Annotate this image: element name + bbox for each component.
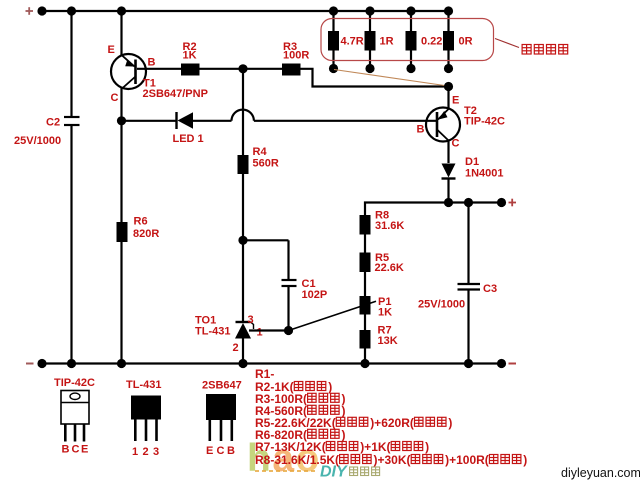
package TIP-42C pins B C E bbox=[62, 444, 89, 456]
wire R2 to node A bbox=[200, 68, 244, 70]
svg-text:C: C bbox=[111, 92, 119, 104]
package TL-431 TO-92 body bbox=[131, 396, 161, 442]
wire T1 base to R2 bbox=[137, 68, 181, 70]
label value 0.22 bbox=[421, 36, 442, 48]
label R2 value 1K bbox=[183, 49, 197, 61]
label R7 bbox=[378, 325, 392, 337]
wire output positive rail bbox=[365, 203, 502, 364]
resistor R5 22.6K bbox=[360, 253, 371, 273]
node input minus terminal bbox=[37, 359, 46, 368]
node output plus terminal bbox=[497, 198, 506, 207]
svg-text:D1: D1 bbox=[465, 156, 479, 168]
svg-text:R1-: R1- bbox=[255, 367, 274, 381]
diode D1 1N4001 bbox=[442, 164, 456, 203]
svg-text:R6: R6 bbox=[134, 216, 148, 228]
svg-text:B: B bbox=[62, 444, 70, 456]
svg-text:560R: 560R bbox=[253, 158, 279, 170]
svg-text:2: 2 bbox=[233, 342, 239, 354]
node T2 emitter junction bbox=[444, 82, 453, 91]
wire T1 collector down through R6 to bottom rail bbox=[120, 121, 122, 364]
capacitor C1 102P bbox=[282, 240, 297, 330]
svg-text:2: 2 bbox=[143, 446, 149, 458]
wire LED1 to hop bbox=[193, 120, 232, 122]
label T2 pin E bbox=[452, 95, 459, 107]
wire node B to C1 bbox=[243, 239, 289, 241]
svg-text:LED 1: LED 1 bbox=[173, 133, 204, 145]
node top rail 0.22 bbox=[406, 6, 415, 15]
svg-text:): ) bbox=[448, 416, 452, 430]
label R4 bbox=[253, 146, 268, 158]
package 2SB647 pins E C B bbox=[206, 445, 235, 457]
package TL-431 label bbox=[126, 379, 161, 391]
wire node A to R3 bbox=[243, 68, 282, 70]
wire hop to T2 base bbox=[254, 120, 437, 122]
watermark DIY text bbox=[320, 464, 380, 480]
node C3 top junction bbox=[464, 198, 473, 207]
resistor R6 820R bbox=[117, 222, 128, 242]
diode LED 1 bbox=[177, 112, 194, 129]
callout rounded box current adjust group bbox=[321, 19, 494, 61]
label + input bbox=[26, 7, 34, 15]
svg-text:1K: 1K bbox=[378, 307, 392, 319]
label R5 bbox=[375, 252, 389, 264]
wire R3 to emitter node of T2 (step) bbox=[301, 69, 449, 87]
label R7 value 13K bbox=[378, 335, 398, 347]
svg-text:25V/1000: 25V/1000 bbox=[418, 299, 465, 311]
svg-text:1: 1 bbox=[257, 326, 263, 338]
svg-text:25V/1000: 25V/1000 bbox=[14, 135, 61, 147]
label T1 pin E bbox=[108, 44, 115, 56]
svg-text:B: B bbox=[148, 57, 156, 69]
node R6 bottom bbox=[117, 359, 126, 368]
label C1 bbox=[302, 278, 316, 290]
callout pointer line bbox=[495, 39, 519, 48]
node A junction R2/R3/R4 bbox=[238, 64, 247, 73]
svg-text:R8-31.6K/1.5K(: R8-31.6K/1.5K( bbox=[255, 453, 339, 467]
package TIP-42C label bbox=[54, 377, 95, 389]
label C3 bbox=[483, 283, 497, 295]
svg-text:): ) bbox=[523, 453, 527, 467]
node bottom 4.7R bbox=[329, 64, 338, 73]
svg-text:)+30K(: )+30K( bbox=[374, 453, 411, 467]
label TL431 pin 2 bbox=[233, 342, 239, 354]
wire node B down to TL431 cathode bbox=[242, 240, 244, 322]
parts list line 7 bbox=[255, 440, 429, 454]
node T1 collector / LED junction bbox=[117, 116, 126, 125]
svg-text:R4: R4 bbox=[253, 146, 268, 158]
svg-text:TIP-42C: TIP-42C bbox=[54, 377, 95, 389]
resistor bank 1R bbox=[365, 11, 376, 69]
wire wiper diagonal to P1 bbox=[289, 301, 377, 330]
wire TL431 ref to node C bbox=[249, 329, 289, 331]
svg-text:1N4001: 1N4001 bbox=[465, 168, 504, 180]
label R5 value 22.6K bbox=[375, 262, 404, 274]
svg-text:2SB647/PNP: 2SB647/PNP bbox=[143, 88, 208, 100]
node B junction R4/C1/TL431 bbox=[238, 236, 247, 245]
node bottom 1R bbox=[365, 64, 374, 73]
label T2 pin B bbox=[417, 123, 425, 135]
svg-text:820R: 820R bbox=[133, 228, 159, 240]
node C2 junction on top rail bbox=[67, 6, 76, 15]
watermark dashed underline bbox=[255, 470, 318, 472]
parts list line 2 bbox=[255, 380, 332, 394]
svg-text:0R: 0R bbox=[459, 36, 473, 48]
label C2 bbox=[46, 117, 60, 129]
svg-text:TL-431: TL-431 bbox=[126, 379, 161, 391]
wire node A down to R4 bbox=[242, 69, 244, 155]
label TL431 pin 1 bbox=[257, 326, 263, 338]
watermark hao123 logo bbox=[247, 437, 321, 480]
svg-text:C: C bbox=[72, 444, 80, 456]
node divider bottom bbox=[360, 359, 369, 368]
wire hop over vertical bbox=[232, 110, 254, 121]
label T1 pin C bbox=[111, 92, 119, 104]
parts list line 1 bbox=[255, 367, 274, 381]
svg-text:B: B bbox=[417, 123, 425, 135]
resistor bank 4.7R bbox=[328, 11, 339, 69]
svg-text:102P: 102P bbox=[302, 289, 328, 301]
label R6 bbox=[134, 216, 148, 228]
label current adjust (CJK) bbox=[522, 45, 568, 55]
package 2SB647 TO-92L body bbox=[206, 394, 236, 441]
wire jumper from 4.7R bottom to T2 emitter node bbox=[334, 70, 448, 87]
label C1 value 102P bbox=[302, 289, 328, 301]
resistor bank 0.22 bbox=[406, 11, 417, 69]
node output minus terminal bbox=[497, 359, 506, 368]
wire junction to LED1 bbox=[122, 120, 177, 122]
node input plus terminal bbox=[37, 6, 46, 15]
label value 0R bbox=[459, 36, 473, 48]
resistor bank 0R bbox=[443, 11, 454, 69]
label R3 bbox=[283, 41, 297, 53]
node C2 bottom bbox=[67, 359, 76, 368]
label R8 value 31.6K bbox=[375, 220, 404, 232]
svg-text:E: E bbox=[81, 444, 88, 456]
svg-text:E: E bbox=[206, 445, 213, 457]
label R3 value 100R bbox=[283, 49, 309, 61]
node D1 cathode on output rail bbox=[444, 198, 453, 207]
node TL431 anode bottom bbox=[238, 359, 247, 368]
parts list line 8 bbox=[255, 453, 527, 467]
svg-text:)+620R(: )+620R( bbox=[370, 416, 414, 430]
label TL-431 bbox=[195, 326, 230, 338]
resistor R2 1K bbox=[181, 64, 200, 76]
svg-text:): ) bbox=[342, 404, 346, 418]
label C3 value 25V/1000 bbox=[418, 299, 465, 311]
package 2SB647 label bbox=[202, 380, 242, 392]
svg-text:): ) bbox=[328, 380, 332, 394]
label D1 bbox=[465, 156, 479, 168]
wire top positive supply rail bbox=[42, 10, 449, 12]
svg-text:)+1K(: )+1K( bbox=[360, 440, 390, 454]
site credit diyleyuan.com bbox=[561, 466, 640, 480]
svg-text:B: B bbox=[227, 445, 235, 457]
label D1 type 1N4001 bbox=[465, 168, 504, 180]
wire bottom negative rail bbox=[42, 362, 502, 364]
svg-text:): ) bbox=[425, 440, 429, 454]
label R8 bbox=[375, 209, 389, 221]
transistor Q T2 TIP-42C PNP bbox=[426, 87, 460, 164]
svg-text:C2: C2 bbox=[46, 117, 60, 129]
svg-text:4.7R: 4.7R bbox=[341, 36, 364, 48]
svg-text:22.6K: 22.6K bbox=[375, 262, 404, 274]
node top rail 1R bbox=[365, 6, 374, 15]
label P1 value 1K bbox=[378, 307, 392, 319]
package TL-431 pins 1 2 3 bbox=[132, 446, 159, 458]
label T1 type 2SB647/PNP bbox=[143, 88, 208, 100]
svg-text:diyleyuan.com: diyleyuan.com bbox=[561, 466, 640, 480]
label R6 value 820R bbox=[133, 228, 159, 240]
svg-text:1R: 1R bbox=[380, 36, 394, 48]
svg-text:C: C bbox=[452, 138, 460, 150]
node T1 emitter junction on top rail bbox=[117, 6, 126, 15]
svg-text:C3: C3 bbox=[483, 283, 497, 295]
label T2 type TIP-42C bbox=[464, 116, 505, 128]
svg-text:E: E bbox=[108, 44, 115, 56]
label - output bbox=[509, 363, 517, 365]
svg-text:2SB647: 2SB647 bbox=[202, 380, 242, 392]
resistor R7 13K bbox=[360, 330, 371, 349]
svg-text:TL-431: TL-431 bbox=[195, 326, 230, 338]
node bottom 0R bbox=[444, 64, 453, 73]
svg-text:E: E bbox=[452, 95, 459, 107]
wire R4 to node B bbox=[242, 174, 244, 240]
label value 1R bbox=[380, 36, 394, 48]
svg-text:3: 3 bbox=[248, 314, 254, 326]
label R4 value 560R bbox=[253, 158, 279, 170]
package TIP-42C TO-220 outline bbox=[61, 391, 89, 442]
label + output bbox=[509, 199, 517, 207]
svg-text:): ) bbox=[342, 428, 346, 442]
svg-text:1: 1 bbox=[132, 446, 138, 458]
node top rail 0R bbox=[444, 6, 453, 15]
svg-text:TIP-42C: TIP-42C bbox=[464, 116, 505, 128]
label T1 pin B bbox=[148, 57, 156, 69]
svg-text:C: C bbox=[217, 445, 225, 457]
resistor R3 100R bbox=[282, 64, 301, 76]
parts list line 6 bbox=[255, 428, 346, 442]
label C2 value 25V/1000 bbox=[14, 135, 61, 147]
svg-text:3: 3 bbox=[153, 446, 159, 458]
label P1 bbox=[378, 296, 391, 308]
label LED 1 bbox=[173, 133, 204, 145]
node bottom 0.22 bbox=[406, 64, 415, 73]
potentiometer P1 1K bbox=[360, 296, 371, 315]
parts list line 5 bbox=[255, 416, 452, 430]
label T1 bbox=[143, 78, 156, 90]
label T2 bbox=[464, 105, 477, 117]
label TO1 bbox=[195, 315, 216, 327]
node top rail 4.7R bbox=[329, 6, 338, 15]
svg-text:13K: 13K bbox=[378, 335, 398, 347]
svg-text:1K: 1K bbox=[183, 49, 197, 61]
transistor Q T1 2SB647 PNP bbox=[111, 11, 146, 121]
capacitor C2 25V/1000 bbox=[64, 11, 80, 364]
resistor R4 560R bbox=[238, 155, 249, 174]
capacitor C3 25V/1000 bbox=[458, 203, 481, 364]
label - input bbox=[26, 363, 34, 365]
svg-text:)+100R(: )+100R( bbox=[445, 453, 489, 467]
node C3 bottom bbox=[464, 359, 473, 368]
label TL431 pin 3 bbox=[248, 314, 254, 326]
label R2 bbox=[183, 41, 197, 53]
label value 4.7R bbox=[341, 36, 364, 48]
node C junction ref/C1/wiper bbox=[284, 326, 293, 335]
svg-text:100R: 100R bbox=[283, 49, 309, 61]
svg-text:31.6K: 31.6K bbox=[375, 220, 404, 232]
shunt regulator U TO1 TL-431 bbox=[235, 322, 254, 364]
parts list line 4 bbox=[255, 404, 346, 418]
label T2 pin C bbox=[452, 138, 460, 150]
resistor R8 31.6K bbox=[360, 215, 371, 235]
svg-text:0.22: 0.22 bbox=[421, 36, 442, 48]
parts list line 3 bbox=[255, 392, 346, 406]
svg-text:R7-13K/12K(: R7-13K/12K( bbox=[255, 440, 326, 454]
